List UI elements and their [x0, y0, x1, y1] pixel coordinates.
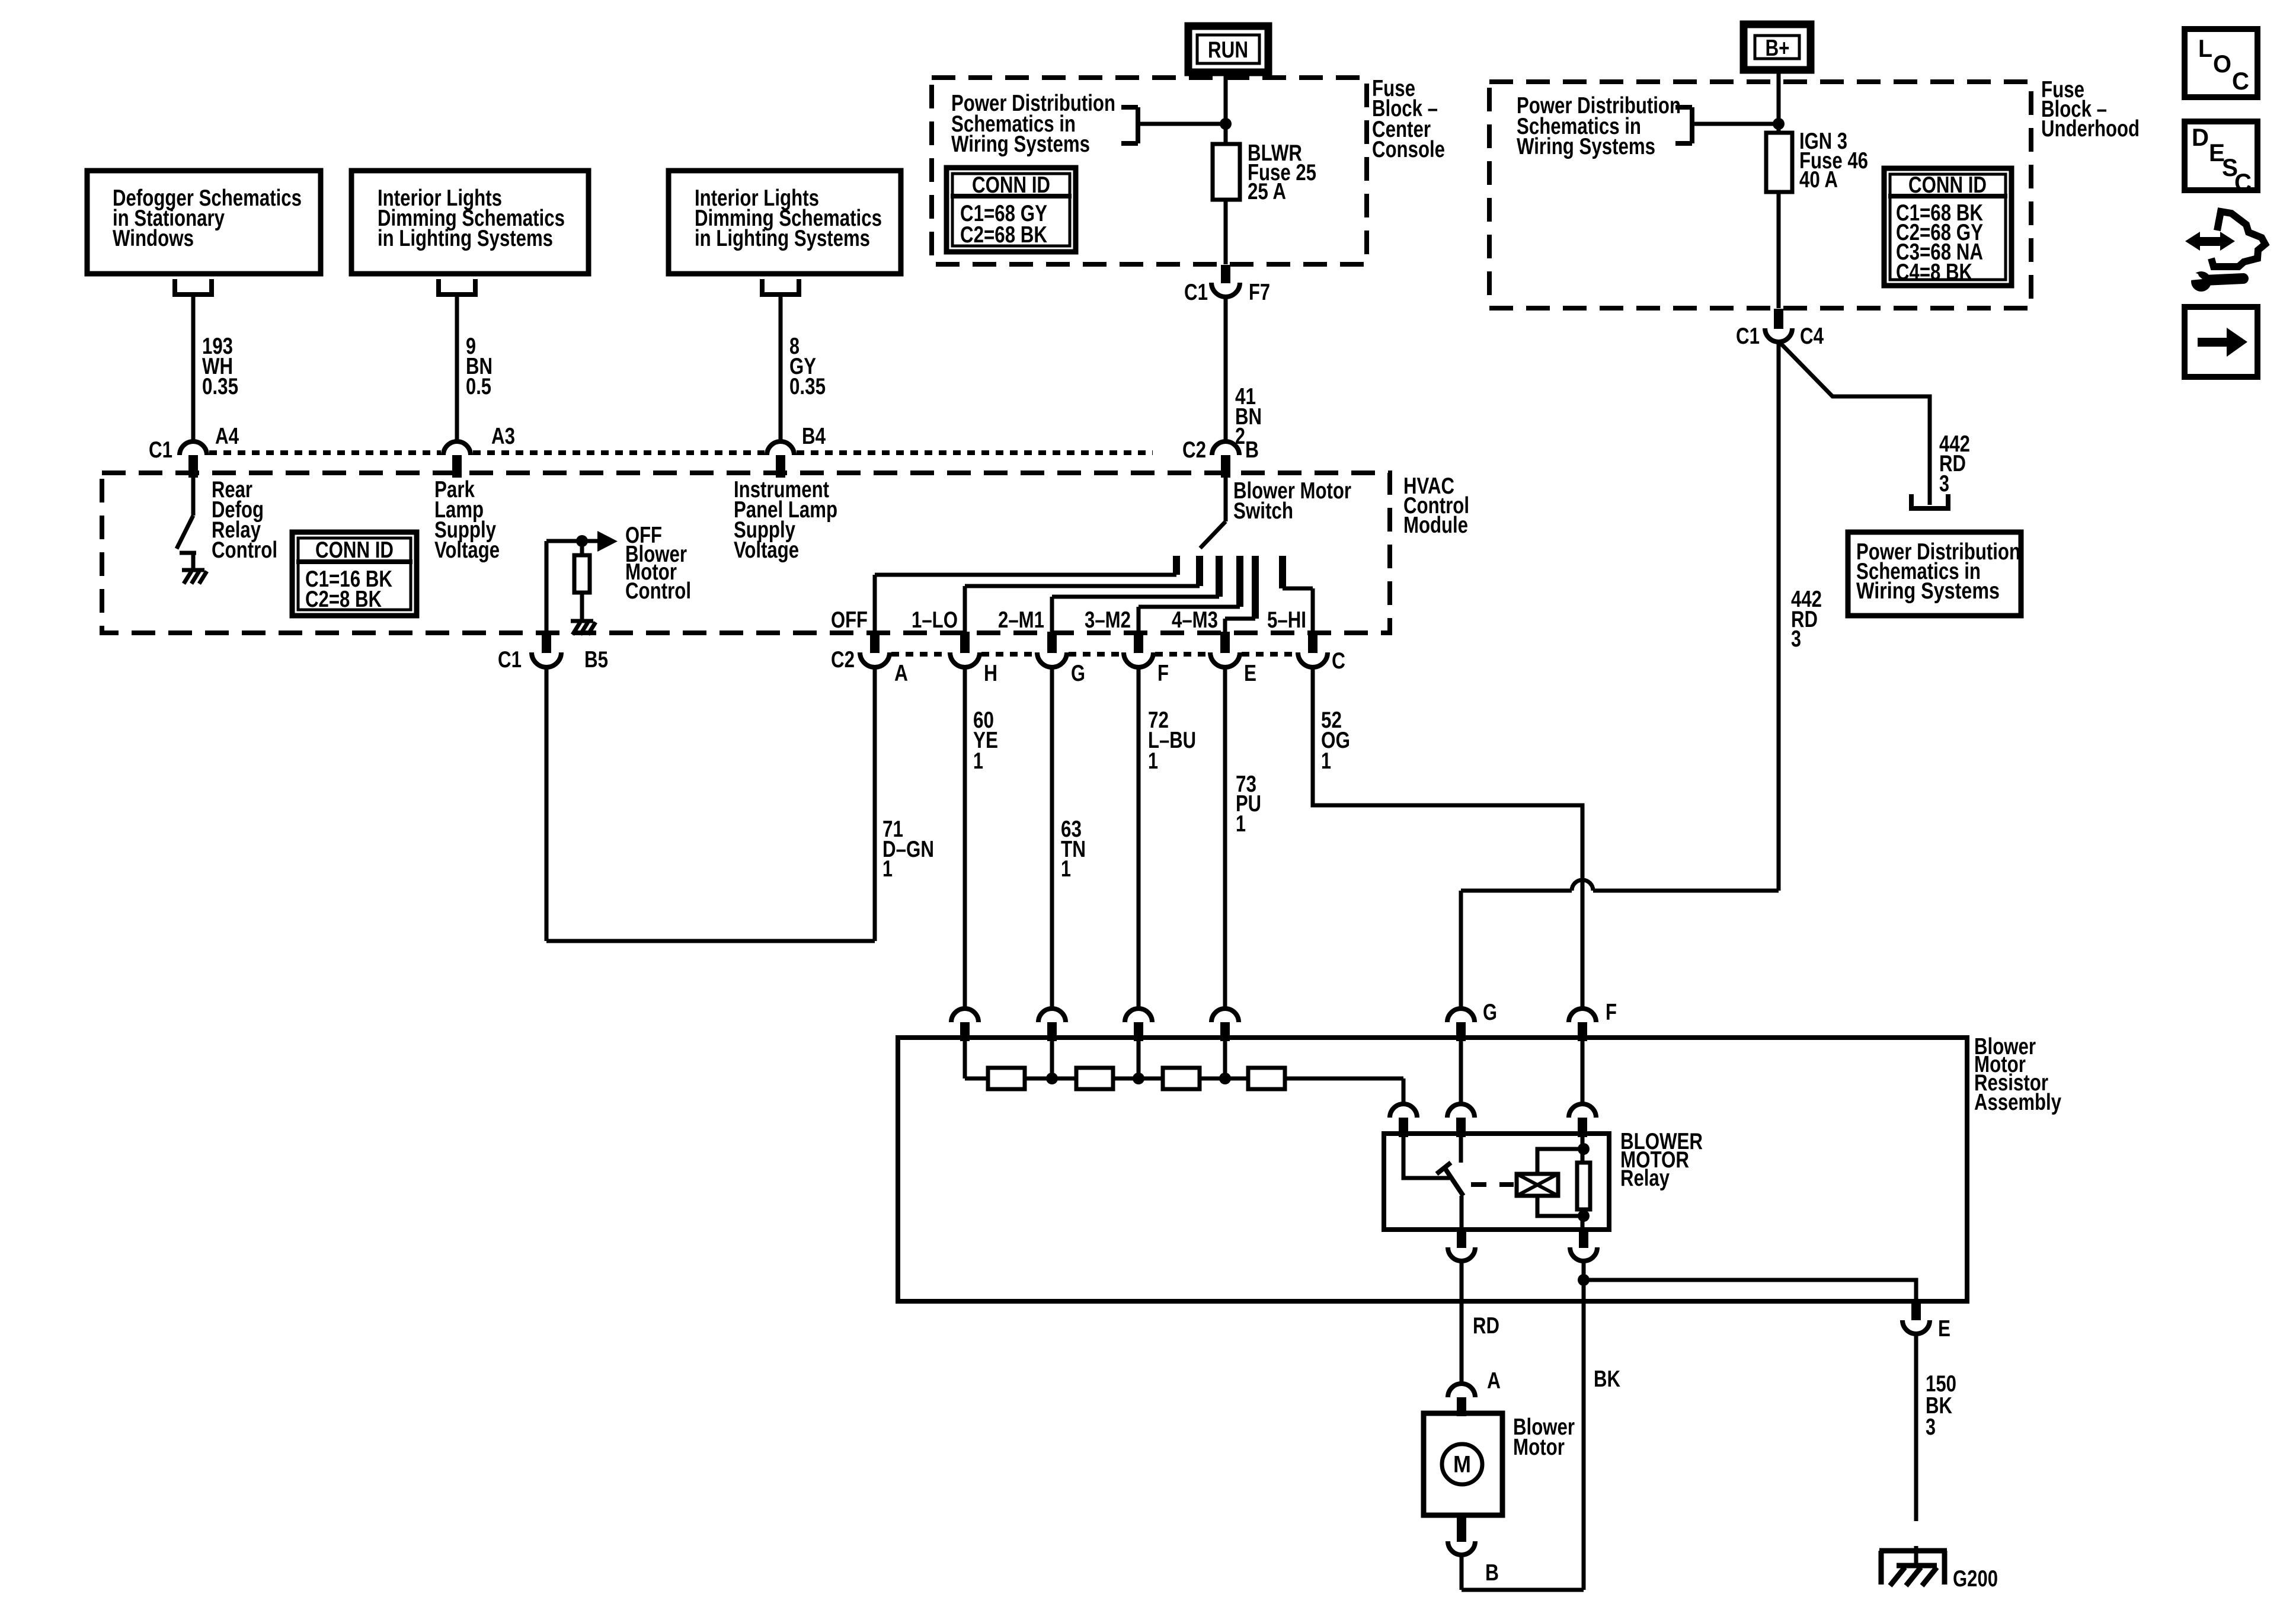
svg-text:Motor: Motor — [1513, 1435, 1565, 1460]
svg-text:BK: BK — [1594, 1366, 1620, 1392]
svg-text:Wiring Systems: Wiring Systems — [951, 132, 1090, 157]
svg-text:in Lighting Systems: in Lighting Systems — [378, 226, 553, 251]
svg-text:40 A: 40 A — [1799, 167, 1838, 193]
svg-text:A3: A3 — [491, 424, 515, 449]
svg-text:25 A: 25 A — [1248, 179, 1286, 204]
svg-text:C1: C1 — [498, 647, 522, 673]
svg-text:3: 3 — [1939, 471, 1949, 497]
svg-text:G: G — [1483, 1000, 1497, 1025]
svg-text:E: E — [1938, 1316, 1950, 1342]
svg-text:Wiring Systems: Wiring Systems — [1517, 134, 1655, 159]
svg-text:B5: B5 — [584, 647, 608, 673]
svg-text:C: C — [2232, 67, 2249, 95]
svg-text:C4: C4 — [1800, 324, 1824, 349]
svg-text:0.5: 0.5 — [466, 374, 491, 399]
svg-text:Voltage: Voltage — [434, 537, 500, 563]
svg-text:M: M — [1453, 1452, 1471, 1478]
svg-text:D: D — [2192, 123, 2209, 151]
svg-text:Assembly: Assembly — [1974, 1090, 2061, 1115]
svg-text:C4=8 BK: C4=8 BK — [1896, 260, 1972, 285]
svg-text:5–HI: 5–HI — [1267, 607, 1306, 633]
svg-text:1: 1 — [1061, 856, 1071, 882]
svg-text:F: F — [1157, 661, 1169, 686]
svg-text:1: 1 — [882, 856, 893, 882]
svg-text:B4: B4 — [802, 424, 826, 449]
svg-text:0.35: 0.35 — [789, 374, 826, 399]
svg-text:RUN: RUN — [1208, 37, 1248, 63]
svg-text:C2: C2 — [831, 647, 855, 673]
svg-text:Switch: Switch — [1233, 498, 1293, 524]
svg-text:4–M3: 4–M3 — [1172, 607, 1218, 633]
svg-text:Control: Control — [625, 578, 691, 604]
svg-text:B+: B+ — [1766, 36, 1790, 61]
svg-text:Module: Module — [1403, 513, 1468, 538]
svg-text:C2=8 BK: C2=8 BK — [305, 587, 382, 612]
svg-text:A4: A4 — [215, 424, 239, 449]
svg-text:2–M1: 2–M1 — [998, 607, 1044, 633]
svg-text:1: 1 — [1236, 811, 1246, 837]
svg-text:1: 1 — [973, 748, 983, 774]
svg-text:A: A — [1487, 1368, 1501, 1394]
svg-text:C2: C2 — [1182, 437, 1206, 463]
svg-text:F: F — [1606, 1000, 1617, 1025]
svg-text:Wiring Systems: Wiring Systems — [1856, 578, 2000, 604]
svg-text:C2=68 BK: C2=68 BK — [960, 222, 1047, 248]
svg-text:B: B — [1245, 437, 1259, 463]
svg-text:Control: Control — [212, 537, 277, 563]
svg-text:Underhood: Underhood — [2041, 116, 2140, 142]
svg-text:RD: RD — [1473, 1313, 1499, 1339]
svg-text:3: 3 — [1791, 626, 1801, 652]
svg-text:C1: C1 — [149, 437, 172, 463]
svg-text:E: E — [1244, 661, 1256, 686]
svg-text:A: A — [894, 661, 908, 686]
svg-text:Windows: Windows — [113, 226, 194, 251]
svg-text:CONN ID: CONN ID — [972, 172, 1050, 198]
svg-text:C: C — [2234, 168, 2252, 196]
svg-text:G: G — [1071, 661, 1085, 686]
svg-text:G200: G200 — [1953, 1566, 1998, 1592]
svg-text:in Lighting Systems: in Lighting Systems — [695, 226, 870, 251]
svg-text:O: O — [2213, 50, 2231, 78]
svg-text:0.35: 0.35 — [202, 374, 238, 399]
svg-text:B: B — [1485, 1560, 1499, 1586]
svg-text:C: C — [1332, 648, 1345, 674]
svg-text:Voltage: Voltage — [734, 537, 799, 563]
svg-text:3–M2: 3–M2 — [1085, 607, 1131, 633]
svg-text:Console: Console — [1372, 137, 1445, 162]
svg-text:Relay: Relay — [1620, 1166, 1670, 1191]
svg-text:C1: C1 — [1184, 280, 1208, 305]
svg-text:1–LO: 1–LO — [912, 607, 958, 633]
svg-text:C1: C1 — [1736, 324, 1760, 349]
svg-text:1: 1 — [1148, 748, 1158, 774]
svg-text:OFF: OFF — [831, 607, 868, 633]
svg-text:L: L — [2198, 34, 2212, 62]
svg-text:3: 3 — [1926, 1414, 1936, 1440]
svg-text:CONN ID: CONN ID — [315, 537, 394, 563]
svg-text:H: H — [984, 661, 997, 686]
svg-text:CONN ID: CONN ID — [1908, 172, 1987, 198]
svg-text:F7: F7 — [1249, 280, 1270, 305]
svg-text:1: 1 — [1321, 748, 1331, 774]
